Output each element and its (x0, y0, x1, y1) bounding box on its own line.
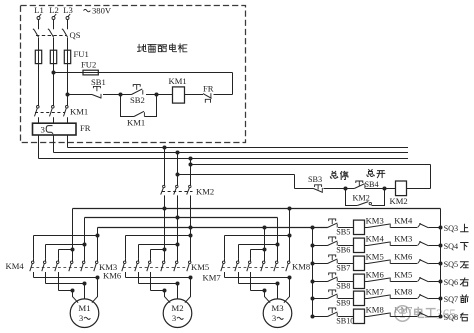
node (288, 234, 292, 238)
control row SQ5 left node (311, 262, 315, 266)
svg-text:SB5: SB5 (336, 227, 350, 236)
wire output cross 3 (151, 290, 165, 292)
wire (324, 188, 355, 190)
wire (338, 263, 354, 265)
node (83, 243, 87, 247)
wire motor feeds (73, 291, 79, 303)
control row SQ6 left node (311, 280, 315, 284)
limit switch SQ7 (418, 294, 469, 304)
wire (365, 245, 368, 247)
wire (391, 227, 418, 229)
wire control row (68, 94, 93, 96)
node (263, 248, 267, 252)
wire (365, 227, 368, 229)
wire (365, 298, 368, 300)
wire phase C (from L1) to distribution (38, 135, 40, 159)
self-hold contact KM1 (parallel branch) (121, 95, 157, 128)
svg-text:KM5: KM5 (394, 270, 412, 280)
wire (429, 298, 441, 300)
node phase C tap (189, 157, 193, 161)
motor M2 (163, 299, 192, 328)
wire cross-connect (239, 244, 278, 246)
contactor main contact pole 2 (42, 259, 46, 284)
svg-text:KM4: KM4 (366, 234, 385, 244)
svg-text:SB6: SB6 (336, 245, 350, 254)
contactor main contact pole 2 (235, 259, 239, 284)
interlock contact KM8 (368, 287, 413, 299)
node (96, 234, 100, 238)
interlock contact KM6 (368, 252, 414, 264)
svg-text:SQ8: SQ8 (444, 313, 459, 322)
svg-text:L1: L1 (34, 5, 44, 15)
right node (439, 280, 443, 284)
node (119, 93, 123, 97)
contactor main contact pole 1 (30, 259, 34, 278)
contactor KM2 main contacts (3-pole) (161, 148, 214, 197)
wire control feed 2 (to KM2 coil side) (191, 164, 431, 166)
node (163, 289, 167, 293)
contactor main contact pole 3 (147, 259, 151, 291)
contactor KM1 main contacts (3-pole) (35, 106, 89, 124)
wire motor feeds (165, 291, 171, 303)
wire (429, 316, 441, 318)
limit switch SQ5 (418, 259, 469, 269)
wire output cross 2 (239, 283, 278, 285)
node (344, 187, 348, 191)
node (263, 289, 267, 293)
wire (338, 227, 354, 229)
node: L3 tap to control row (66, 93, 70, 97)
svg-text:3: 3 (172, 314, 176, 323)
contactor main contact pole 1 (221, 259, 225, 278)
node (71, 289, 75, 293)
svg-text:380V: 380V (92, 6, 112, 16)
supply terminal L2 (49, 5, 59, 29)
svg-text:SB2: SB2 (130, 95, 145, 105)
contactor main contact pole 4 (69, 250, 73, 272)
power bus 3 / control row 1 (98, 227, 328, 229)
mechanical linkage (31, 267, 94, 269)
fuse group FU1 (3 fuses) (35, 49, 88, 106)
node (163, 248, 167, 252)
node: L2 tap to control fuse (52, 71, 56, 75)
control row SQ4 left node (311, 244, 315, 248)
svg-text:FU2: FU2 (81, 60, 96, 70)
contactor main contact pole 3 (55, 259, 59, 291)
self-hold contact KM2 (parallel branch) (346, 189, 385, 206)
thermal relay FR (heater box) (33, 123, 91, 135)
interlock contact KM4 (368, 216, 414, 228)
right node (439, 297, 443, 301)
contactor coil KM8 (354, 305, 384, 324)
wire output cross 1 (225, 277, 290, 279)
svg-text:KM6: KM6 (366, 270, 385, 280)
contactor main contact pole 5 (274, 245, 278, 272)
wire output cross 3 (251, 290, 265, 292)
contactor coil KM1 (169, 76, 187, 103)
node (176, 243, 180, 247)
svg-text:FU1: FU1 (74, 49, 89, 59)
disconnect switch QS (3-pole) (33, 29, 81, 50)
svg-text:SB7: SB7 (336, 263, 350, 272)
svg-text:SB9: SB9 (336, 298, 350, 307)
wire cross-connect (126, 235, 191, 237)
svg-text:SB3: SB3 (308, 175, 322, 184)
wire (185, 94, 204, 96)
svg-text:KM4: KM4 (6, 261, 25, 271)
stop button SB1 (91, 77, 106, 99)
wire phase B (from L2) to distribution (53, 135, 55, 153)
right node (439, 244, 443, 248)
svg-text:KM5: KM5 (191, 262, 209, 272)
svg-text:KM7: KM7 (203, 273, 222, 283)
wire (103, 94, 132, 96)
svg-text:KM8: KM8 (394, 287, 412, 297)
node (288, 207, 292, 211)
svg-text:KM1: KM1 (169, 76, 187, 86)
wire (313, 263, 328, 265)
limit switch SQ8 (418, 312, 468, 322)
svg-text:KM8: KM8 (292, 262, 310, 272)
contactor coil KM3 (354, 216, 384, 235)
motor branch M3 feed verticals (264, 228, 266, 250)
svg-text:3: 3 (41, 125, 46, 135)
svg-text:SQ7: SQ7 (444, 295, 459, 304)
wire (391, 245, 418, 247)
wire cross-connect (46, 244, 85, 246)
wire output cross 2 (139, 283, 178, 285)
node phase A tap (163, 146, 167, 150)
node (383, 187, 387, 191)
svg-text:M3: M3 (271, 303, 284, 313)
supply terminal L3 (63, 5, 73, 29)
pushbutton SB7 (328, 255, 351, 273)
master start button SB4 总开 (354, 170, 384, 189)
limit switch SQ4 (418, 241, 468, 251)
contactor main contact pole 2 (135, 259, 139, 284)
contactor coil KM5 (354, 252, 384, 271)
svg-text:KM4: KM4 (394, 216, 413, 226)
svg-text:M1: M1 (78, 303, 90, 313)
svg-text:SQ5: SQ5 (444, 260, 459, 269)
watermark text 电工365 (415, 306, 457, 321)
svg-text:L3: L3 (63, 5, 73, 15)
limit switch SQ3 (418, 223, 468, 233)
contactor coil KM2 (390, 181, 408, 206)
svg-text:L2: L2 (49, 5, 59, 15)
wire (338, 281, 354, 283)
interlock contact KM3 (368, 234, 413, 246)
contactor main contact pole 4 (261, 250, 265, 272)
pushbutton SB8 (328, 273, 351, 291)
svg-text:KM2: KM2 (390, 196, 408, 206)
svg-text:KM7: KM7 (366, 287, 385, 297)
right node (439, 226, 443, 230)
power bus 1 (73, 208, 441, 210)
node phase B tap (176, 151, 180, 155)
svg-text:KM3: KM3 (394, 234, 412, 244)
wire cross-connect (34, 235, 98, 237)
interlock contact KM7 (368, 305, 414, 317)
svg-text:KM3: KM3 (366, 216, 384, 226)
svg-text:M2: M2 (171, 303, 183, 313)
motor M1 (70, 299, 99, 328)
motor M3 (263, 299, 292, 328)
node (176, 216, 180, 220)
contactor main contact pole 6 (286, 236, 290, 272)
svg-text:KM2: KM2 (196, 187, 214, 197)
watermark logo (395, 306, 410, 321)
wire (365, 263, 368, 265)
svg-text:SQ3: SQ3 (444, 224, 459, 233)
wire (365, 281, 368, 283)
fuse FU2 (81, 60, 98, 75)
control left bus (312, 228, 314, 317)
motor branch M1 feed verticals (72, 209, 74, 250)
node (71, 248, 75, 252)
right node (439, 315, 443, 319)
wire KM2 output 3 (190, 195, 192, 227)
mechanical linkage (222, 267, 286, 269)
wire cross-connect (251, 249, 265, 251)
svg-text:SB4: SB4 (365, 180, 379, 189)
svg-text:3: 3 (272, 314, 276, 323)
wire cross-connect (225, 235, 290, 237)
wire cross-connect (139, 244, 178, 246)
dashed enclosure: ground distribution cabinet boundary (21, 6, 246, 143)
contactor main contact pole 6 (187, 236, 191, 272)
wire (391, 316, 418, 318)
pushbutton SB5 (328, 219, 351, 237)
svg-text:FR: FR (80, 123, 91, 133)
pushbutton SB6 (328, 237, 351, 255)
wire cross-connect (151, 249, 165, 251)
svg-text:SB8: SB8 (336, 281, 350, 290)
svg-text:FR: FR (203, 84, 214, 94)
node (83, 282, 87, 286)
pushbutton SB10 (328, 308, 355, 326)
wire output cross 3 (59, 290, 73, 292)
wire (338, 245, 354, 247)
svg-text:SB1: SB1 (91, 77, 106, 87)
contactor main contact pole 5 (81, 245, 85, 272)
wire (313, 298, 328, 300)
svg-text:3: 3 (79, 314, 83, 323)
node (288, 276, 292, 280)
wire output cross 1 (34, 277, 98, 279)
wire (429, 281, 441, 283)
node (163, 207, 167, 211)
svg-text:KM8: KM8 (366, 305, 384, 315)
contactor main contact pole 3 (247, 259, 251, 291)
wire (391, 281, 418, 283)
pushbutton SB9 (328, 290, 351, 308)
wire output cross 2 (46, 283, 85, 285)
thermal relay contact FR (203, 84, 214, 103)
svg-text:KM1: KM1 (127, 118, 145, 128)
contactor main contact pole 5 (174, 245, 178, 272)
svg-text:KM2: KM2 (353, 193, 370, 202)
contactor coil KM6 (354, 270, 385, 289)
svg-text:KM6: KM6 (394, 252, 413, 262)
mechanical linkage (123, 267, 187, 269)
motor branch M2 feed verticals (164, 209, 166, 250)
svg-text:KM6: KM6 (103, 271, 122, 281)
wire control feed 1 (to master buttons) (178, 174, 295, 176)
svg-text:QS: QS (70, 30, 81, 40)
control row SQ3 left node (311, 226, 315, 230)
wire output cross 1 (126, 277, 191, 279)
node (189, 234, 193, 238)
wire motor feeds (265, 291, 271, 303)
contactor main contact pole 1 (122, 259, 126, 278)
svg-text:KM7: KM7 (394, 305, 413, 315)
contactor coil KM4 (354, 234, 385, 253)
label ~380V (84, 6, 112, 16)
node (189, 226, 193, 230)
node (155, 93, 159, 97)
interlock contact KM5 (368, 270, 413, 282)
right node (439, 262, 443, 266)
node (176, 282, 180, 286)
wire cross-connect (59, 249, 73, 251)
control right bus (from bus 1) (440, 209, 442, 317)
wire (391, 298, 418, 300)
control row SQ8 left node (311, 315, 315, 319)
svg-text:SB10: SB10 (336, 316, 354, 325)
node control feed 1 tap (176, 173, 180, 177)
wire (313, 281, 328, 283)
wire (365, 188, 395, 190)
node (276, 243, 280, 247)
contactor main contact pole 4 (161, 250, 165, 272)
wire (313, 245, 328, 247)
wire (429, 227, 441, 229)
wire (429, 245, 441, 247)
wire (313, 316, 328, 318)
svg-text:SQ6: SQ6 (444, 278, 459, 287)
wire KM2 output 1 (164, 195, 166, 208)
wire (429, 263, 441, 265)
control row SQ7 left node (311, 297, 315, 301)
wire (338, 316, 354, 318)
node (96, 276, 100, 280)
svg-text:SQ4: SQ4 (444, 242, 459, 251)
wire control top feed (54, 72, 233, 74)
wire to control top (214, 94, 233, 96)
limit switch SQ6 (418, 277, 469, 287)
node (263, 226, 267, 230)
master stop button SB3 总停 (308, 171, 348, 192)
wire (365, 316, 368, 318)
wire (338, 298, 354, 300)
supply terminal L1 (34, 5, 44, 29)
contactor main contact pole 6 (94, 236, 98, 272)
start button SB2 (130, 85, 145, 106)
wire (391, 263, 418, 265)
node (189, 276, 193, 280)
wire (146, 94, 172, 96)
label 地面配电柜 (138, 44, 187, 53)
svg-text:KM1: KM1 (70, 107, 88, 117)
power bus 2 (85, 217, 278, 219)
node (276, 282, 280, 286)
svg-text:KM5: KM5 (366, 252, 384, 262)
contactor coil KM7 (354, 287, 385, 306)
node control feed 2 tap (189, 163, 193, 167)
wire KM2 output 2 (177, 195, 179, 217)
wire phase A (from L3) to distribution (67, 135, 69, 148)
